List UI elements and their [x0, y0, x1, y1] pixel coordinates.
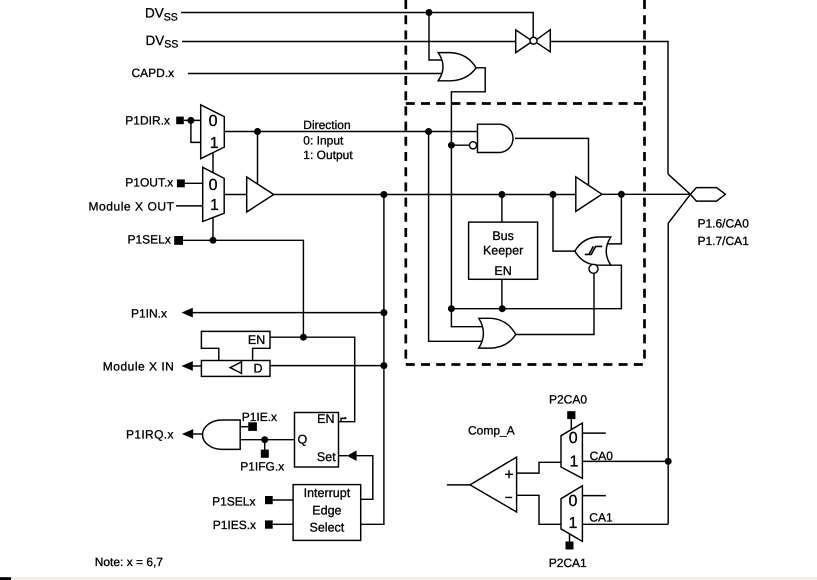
svg-text:1: 1: [210, 197, 219, 214]
svg-text:1: Output: 1: Output: [303, 148, 353, 162]
svg-text:CA0: CA0: [590, 449, 614, 463]
svg-text:Interrupt: Interrupt: [304, 486, 351, 500]
svg-text:EN: EN: [494, 264, 511, 278]
svg-text:Module X OUT: Module X OUT: [89, 200, 175, 214]
svg-text:Comp_A: Comp_A: [468, 424, 515, 438]
svg-text:P1OUT.x: P1OUT.x: [125, 175, 173, 189]
svg-text:P1IN.x: P1IN.x: [131, 306, 167, 320]
svg-text:P1SELx: P1SELx: [212, 495, 255, 509]
svg-text:Direction: Direction: [303, 118, 350, 132]
svg-text:Select: Select: [310, 521, 345, 535]
svg-text:CA1: CA1: [589, 511, 613, 525]
svg-text:Module X IN: Module X IN: [103, 359, 175, 373]
svg-text:P1IRQ.x: P1IRQ.x: [126, 427, 174, 441]
svg-text:P1IFG.x: P1IFG.x: [240, 460, 284, 474]
svg-text:P1IES.x: P1IES.x: [213, 518, 256, 532]
svg-text:P1SELx: P1SELx: [128, 233, 171, 247]
svg-text:0: Input: 0: Input: [303, 134, 344, 148]
svg-text:P2CA0: P2CA0: [549, 393, 587, 407]
svg-text:0: 0: [569, 430, 578, 447]
svg-text:1: 1: [570, 454, 579, 471]
svg-text:EN: EN: [248, 333, 265, 347]
svg-text:P1.7/CA1: P1.7/CA1: [698, 234, 750, 248]
svg-text:Set: Set: [317, 450, 336, 464]
svg-text:D: D: [254, 361, 263, 375]
svg-text:P2CA1: P2CA1: [549, 556, 587, 570]
svg-text:EN: EN: [317, 412, 334, 426]
svg-text:0: 0: [209, 113, 218, 130]
svg-text:Edge: Edge: [312, 504, 341, 518]
svg-text:0: 0: [569, 493, 578, 510]
svg-text:1: 1: [210, 135, 219, 152]
svg-text:Note: x = 6,7: Note: x = 6,7: [95, 555, 164, 569]
svg-text:P1.6/CA0: P1.6/CA0: [698, 217, 750, 231]
svg-text:Bus: Bus: [492, 229, 514, 243]
svg-text:1: 1: [569, 515, 578, 532]
svg-text:Keeper: Keeper: [483, 243, 523, 257]
svg-text:Q: Q: [298, 433, 308, 447]
svg-text:P1IE.x: P1IE.x: [242, 410, 277, 424]
svg-text:0: 0: [209, 177, 218, 194]
svg-text:P1DIR.x: P1DIR.x: [125, 113, 170, 127]
svg-text:CAPD.x: CAPD.x: [132, 66, 175, 80]
